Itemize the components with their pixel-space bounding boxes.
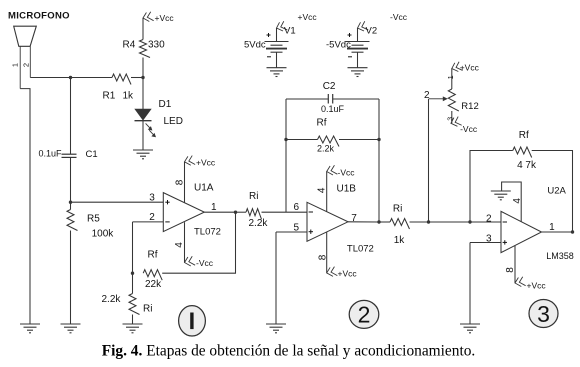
wire R1 to node B [131,77,143,79]
svg-text:1k: 1k [394,235,406,246]
wire node H to Ri3 [379,221,390,223]
svg-text:Ri: Ri [143,304,152,315]
wire C2 left vertical [285,99,287,212]
svg-text:330: 330 [148,39,165,50]
wire mic pin2 to node A [30,77,70,79]
svg-text:Rf: Rf [317,118,327,129]
node D junction [131,272,134,275]
wire U1B pin5 to ground [275,232,277,324]
svg-text:4: 4 [174,242,185,248]
svg-text:R1: R1 [103,90,116,101]
wire U1A output [204,211,235,213]
node K junction [571,230,574,233]
svg-text:2: 2 [486,214,492,225]
ground V1 [267,68,287,77]
wire Ri2 to U1B pin6 [262,211,308,213]
wire V2 top [357,28,359,42]
wire U1B pin5 [276,231,307,233]
svg-text:+Vcc: +Vcc [460,62,480,72]
svg-text:R12: R12 [461,101,478,112]
resistor Ri2 body [246,209,261,220]
svg-text:6: 6 [294,202,300,213]
svg-text:U1A: U1A [194,182,214,193]
wire U1A pin2 down [132,222,134,273]
svg-text:+Vcc: +Vcc [338,268,358,278]
diode D1 LED [135,109,150,120]
wire C2 right vertical [378,99,380,222]
node B junction [141,76,144,79]
resistor Rf1 body [143,270,162,281]
svg-text:2: 2 [424,90,430,101]
power -Vcc U1B [326,165,337,176]
svg-text:V2: V2 [366,26,378,37]
svg-text:R4: R4 [123,39,136,50]
label V2 minus [348,56,352,58]
wiper arrow R12 [429,96,448,101]
ground Ri1 [123,324,143,333]
wire D1 to ground [142,121,144,150]
svg-text:4 7k: 4 7k [517,160,537,171]
svg-text:R5: R5 [87,214,100,225]
node I junction [427,220,430,223]
wire Rf3 left vertical [470,151,513,223]
wire Rf3 right [532,151,573,233]
wire U2A Vplus pin [514,246,516,283]
svg-text:8: 8 [318,254,329,260]
ground V2 [348,68,368,77]
wire node A down to C1 [70,78,72,155]
power +Vcc top [142,12,153,23]
wire Rf1 to feedback [162,212,235,273]
wire C2 left [286,98,328,100]
wire U1B output [348,221,379,223]
microphone MIC1 body [14,26,37,46]
battery V2 body [346,42,370,53]
battery V1 body [265,42,289,53]
resistor Rf2 body [318,136,339,147]
power +Vcc U2A [514,277,525,288]
op-amp U1A body [163,193,204,232]
svg-text:1: 1 [448,75,455,79]
svg-text:2: 2 [22,63,31,67]
ground U1B pin5 [266,324,286,333]
svg-text:2: 2 [358,302,371,328]
stage bubble 3 [529,300,558,328]
wire node B to D1 [142,78,144,110]
power +Vcc R12 [451,61,463,72]
ground LED [133,150,153,159]
wire C2 right [333,98,379,100]
power -Vcc R12 [450,116,462,127]
stage bubble 2 [349,300,379,328]
svg-text:2.2k: 2.2k [317,144,335,154]
wire Rf2 left [286,139,318,141]
svg-text:8: 8 [505,267,516,273]
wire R4 to node B [142,58,144,78]
wire C1 to node C [70,157,72,202]
svg-text:-Vcc: -Vcc [390,12,408,22]
wire Rf2 right [339,139,379,141]
battery V1 connector [275,21,287,32]
node F junction [284,138,287,141]
svg-text:TL072: TL072 [194,227,221,238]
wire R12 bottom [451,111,453,123]
svg-text:7: 7 [351,213,357,224]
power -Vcc U1A [184,256,195,267]
wire node A to R1 [71,77,113,79]
svg-text:-Vcc: -Vcc [338,167,356,177]
svg-text:+Vcc: +Vcc [298,12,318,22]
svg-text:C2: C2 [323,81,336,92]
capacitor C2 body [328,94,332,104]
svg-text:+Vcc: +Vcc [527,280,547,290]
svg-text:C1: C1 [86,149,98,160]
wire U1A Vminus pin [184,222,186,262]
wire U2A pin3 [470,242,501,244]
node A junction [69,76,72,79]
wire U1B Vminus pin [326,172,328,212]
wire +Vcc to R4 [142,18,144,40]
svg-text:Rf: Rf [148,250,158,261]
node G junction [377,138,380,141]
svg-text:Rf: Rf [519,130,529,141]
wire U2A pin3 to ground [469,243,471,325]
node J junction [468,220,471,223]
label V2 plus [348,33,352,37]
wire R12 wiper down [428,99,430,222]
svg-text:Fig. 4. Etapas de obtención de: Fig. 4. Etapas de obtención de la señal … [102,343,476,360]
power +Vcc U1A [184,155,195,166]
resistor R1 body [112,74,131,85]
resistor Ri3 body [390,219,409,230]
wire V1 bottom [276,52,278,67]
svg-text:0.1uF: 0.1uF [39,149,63,159]
svg-text:U2A: U2A [547,186,566,197]
wire U1A Vplus pin [184,162,186,203]
wire U2A pin4 to ground [502,182,522,222]
ground U2A pin4 [491,191,511,200]
svg-text:2.2k: 2.2k [249,218,269,229]
svg-text:V1: V1 [284,26,296,37]
node E junction [234,211,237,214]
svg-text:1k: 1k [123,90,135,101]
resistor R5 body [67,210,78,231]
capacitor C1 body [62,154,77,157]
svg-text:-5Vdc: -5Vdc [326,40,351,51]
label V1 minus [267,56,271,58]
resistor R12 body [448,89,459,111]
svg-text:3: 3 [149,193,155,204]
ground U2A pin3 [460,324,480,333]
wire R12 top [451,69,453,90]
svg-text:+Vcc: +Vcc [196,157,216,167]
wire node D to Ri1 [132,273,134,293]
wire V1 top [276,28,278,42]
power +Vcc U1B [326,266,337,277]
node C junction [69,201,72,204]
label V1 plus [267,33,271,37]
battery V2 connector [356,21,368,32]
svg-text:4: 4 [512,198,523,204]
svg-text:-Vcc: -Vcc [460,124,478,134]
svg-text:1: 1 [211,202,217,213]
svg-text:LED: LED [164,116,183,127]
svg-text:4: 4 [316,187,327,193]
svg-text:-Vcc: -Vcc [196,258,214,268]
resistor Rf3 body [513,147,532,158]
ground mic [20,324,40,333]
resistor R4 body [140,40,151,58]
wire V2 bottom [357,52,359,67]
svg-text:1: 1 [11,63,20,67]
svg-text:MICROFONO: MICROFONO [8,11,70,22]
svg-text:U1B: U1B [337,184,357,195]
wire Ri1 to ground [132,315,134,325]
wire node C to U1A pin3 [71,201,164,203]
wire node C to R5 [70,202,72,209]
resistor Ri1 body [129,294,140,315]
wire Ri3 to U2A pin2 [410,221,502,223]
op-amp U2A body [501,211,542,252]
svg-text:Ri: Ri [393,204,402,215]
svg-text:+Vcc: +Vcc [155,13,175,23]
ground R5 [61,324,81,333]
svg-text:2.2k: 2.2k [102,294,122,305]
svg-text:D1: D1 [159,99,172,110]
svg-text:0.1uF: 0.1uF [321,104,345,114]
svg-text:8: 8 [175,179,186,185]
svg-text:TL072: TL072 [347,243,374,254]
svg-text:LM358: LM358 [546,251,574,261]
svg-text:3: 3 [537,301,550,327]
wire mic pin1 to ground [20,89,30,324]
wire U1B Vplus pin [326,232,328,273]
wire R5 to ground [70,231,72,325]
svg-text:22k: 22k [145,279,162,290]
stage bubble 1 [179,306,206,336]
op-amp U1B body [307,202,348,241]
svg-text:Ri: Ri [249,191,258,202]
svg-text:100k: 100k [92,229,115,240]
wire node E to Ri2 [236,211,247,213]
wire U1A pin2 [133,221,164,223]
svg-text:5Vdc: 5Vdc [244,40,266,51]
wire U2A output [542,231,573,233]
node H junction [377,220,380,223]
